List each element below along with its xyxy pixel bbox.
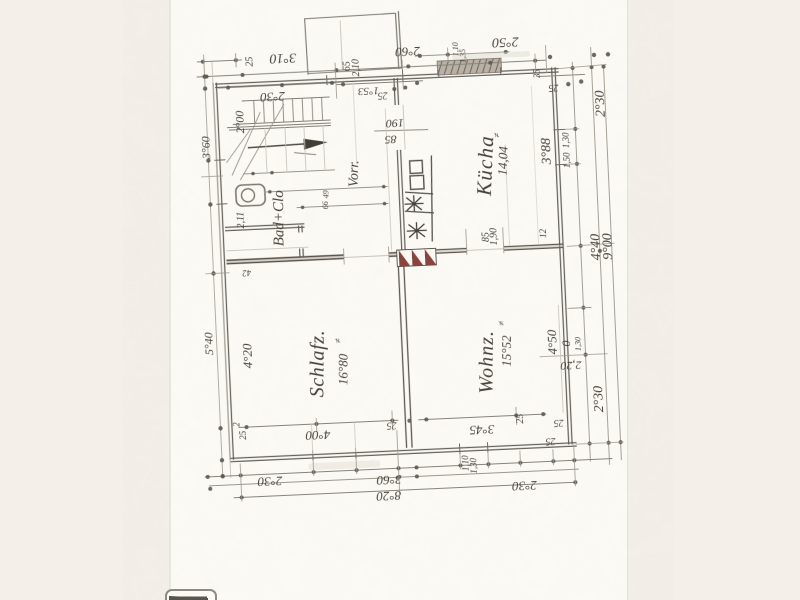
corner extra dots — [548, 52, 612, 87]
top wall tick 4 — [499, 67, 501, 75]
left chain line 2 — [212, 60, 231, 478]
outer wall top — [215, 69, 559, 88]
kitchen door ext 2 — [503, 227, 504, 253]
top wall tick 3 — [438, 70, 440, 78]
smudge streak top right — [452, 51, 530, 60]
stairs top dim line — [218, 83, 336, 88]
bottom wall tick 2 — [355, 448, 357, 458]
wohnz inner faint v — [558, 305, 563, 413]
ext x386 bottom — [391, 411, 394, 431]
bad dim1 dots — [268, 185, 386, 194]
stair direction arrow — [248, 143, 314, 147]
kitchen sink square 2 — [410, 175, 424, 189]
bottom wall tick 3 — [458, 443, 460, 453]
vorr top dim line — [336, 81, 423, 85]
WC bowl circle — [241, 189, 255, 203]
outer wall bottom — [230, 443, 577, 462]
stairs rails — [226, 97, 331, 130]
schlafz win ext a — [311, 424, 312, 454]
ext tick x412 — [402, 60, 403, 90]
bad dim line 2 — [297, 203, 389, 207]
top dim line 2 — [197, 60, 547, 77]
corner tick row y83 — [537, 74, 585, 76]
paper sheet — [169, 0, 628, 600]
top wall tick 2 — [401, 70, 404, 82]
ext x310 bottom — [315, 418, 318, 432]
wohnz tick y316 inner — [567, 307, 591, 308]
spine wall mid — [397, 150, 405, 252]
top wall tick 1 — [326, 75, 328, 85]
bad wall vertical lower — [300, 248, 304, 257]
chimney hatch block — [437, 58, 502, 75]
top dim line 1 — [197, 60, 242, 62]
schlafz dim dots — [244, 418, 411, 431]
wohnz dim line — [418, 414, 546, 420]
bottom wall tick 4 — [486, 442, 488, 452]
bot ext x566 — [574, 444, 576, 486]
spine wall lower (Schlafz/Wohnz) — [398, 258, 412, 448]
kitchen shelf line 2 — [405, 210, 434, 214]
right wall window t2 — [555, 163, 567, 166]
bad dim line 1 — [264, 186, 388, 192]
middle door ext 2 — [387, 246, 390, 262]
spine door edge faint — [403, 105, 405, 150]
bot ext x232 — [240, 463, 242, 501]
bottom-left label blob — [166, 590, 216, 600]
vorr scratch v2 — [353, 82, 357, 164]
bot ext x545 — [552, 449, 555, 465]
outer wall right — [552, 67, 573, 444]
bottom chain 2 — [209, 469, 579, 486]
WC fixture — [236, 184, 266, 206]
left chain line 1 — [204, 61, 223, 479]
kitchen stove star 1 — [404, 195, 424, 213]
door threshold lines — [344, 255, 389, 257]
bot ext x348 — [355, 458, 358, 474]
kitchen bottom wall left — [409, 248, 467, 254]
balcony dim line — [415, 52, 510, 56]
corner tick b — [545, 45, 546, 73]
arrow tail stroke — [294, 152, 316, 156]
left chain dots — [202, 74, 225, 478]
middle door ext 1 — [343, 249, 346, 265]
bad wall vertical upper — [299, 225, 303, 232]
balcony centre line — [340, 20, 342, 70]
kitchen door ext 1 — [466, 229, 467, 255]
kitchen stove star 2 — [406, 222, 427, 240]
bottom chain dots — [206, 458, 578, 501]
right chain line 1 — [572, 62, 590, 462]
right tick y172 — [563, 163, 581, 166]
bad wall horizontal — [225, 224, 305, 231]
masonry hatch block (junction) — [397, 248, 437, 266]
middle wall infill — [226, 255, 344, 265]
paper blotches — [169, 0, 628, 600]
schlafz dim line — [239, 420, 399, 427]
faint verticals below stairs — [265, 125, 325, 172]
left wall tick 2 — [216, 203, 227, 205]
balcony dim tick — [447, 48, 450, 62]
schlafz win ext b — [354, 422, 355, 452]
smudge under bottom wall — [308, 460, 380, 470]
kitchen faint v — [531, 86, 538, 244]
top dim 1 dots — [201, 58, 238, 64]
kitchen door ext up — [505, 145, 510, 245]
plan group (scan skew) — [184, 2, 630, 513]
ext tick x345 — [335, 63, 337, 99]
spine wall upper (Vorr/Kücha) — [394, 78, 399, 105]
right tick y76 — [558, 64, 606, 68]
paper left edge shadow — [169, 0, 171, 600]
left tick y168 — [201, 175, 223, 178]
right tick y363 — [540, 354, 608, 357]
paper right edge shadow — [627, 0, 629, 600]
kitchen shelf line 1 — [405, 191, 433, 195]
bad lower faint line — [226, 247, 308, 251]
stair break diagonals — [224, 104, 287, 181]
paper grain — [169, 0, 628, 600]
kitchen column right edge — [428, 155, 435, 241]
bot ext x390 — [397, 430, 400, 494]
balcony dim dots — [418, 50, 508, 58]
bot ext x480 — [487, 452, 490, 468]
right chain line 2 — [591, 47, 610, 465]
kitchen bottom wall right — [504, 244, 564, 250]
middle wall left of door — [226, 255, 344, 264]
vorr top dim dots — [341, 79, 419, 94]
left tick y265 — [206, 273, 230, 274]
right tick y316 — [569, 306, 591, 309]
balcony outline — [304, 11, 401, 75]
bot ext x305 — [312, 460, 315, 476]
stair treads — [254, 97, 323, 123]
ext tick x214 — [204, 55, 205, 83]
kitchen sink square 1 — [410, 160, 423, 173]
bot ext x452 — [459, 453, 462, 469]
left wall tick 1 — [214, 159, 225, 161]
ext x510 bottom — [515, 407, 518, 425]
stairs dim dots — [251, 171, 274, 176]
top dim 2 dots — [204, 59, 537, 79]
right chain dots — [570, 64, 622, 445]
bottom chain 1 — [205, 459, 613, 478]
right chain line 3 — [603, 65, 621, 461]
outer wall left — [213, 83, 234, 460]
stairs top dim dots — [226, 81, 334, 90]
bottom wall tick 1 — [312, 450, 314, 460]
tick at 246 — [235, 53, 238, 67]
bad dim2 dots — [301, 202, 387, 209]
stairs lower dim line — [243, 170, 335, 174]
right tick y254 — [567, 243, 615, 246]
right tick y452 — [576, 442, 624, 444]
spine door dim line — [374, 129, 428, 132]
right wall window t1 — [553, 128, 565, 131]
wohnz dim dots — [424, 412, 545, 421]
corner tick a — [534, 54, 537, 74]
right tick y137 — [561, 128, 579, 131]
middle wall right of door — [389, 252, 403, 256]
bot ext x512 — [519, 451, 522, 467]
arrow head — [303, 138, 327, 150]
bottom chain 3 — [234, 482, 578, 498]
vorr streak v — [385, 108, 391, 250]
